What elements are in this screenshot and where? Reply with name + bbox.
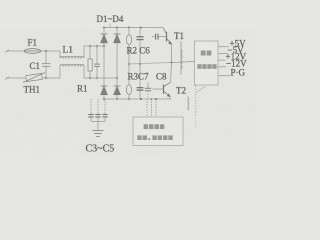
inductor L1 bottom winding xyxy=(60,64,84,66)
capacitor C4 xyxy=(97,99,99,114)
label D1~D4 tick xyxy=(109,24,111,28)
wire from L1 bottom to bridge xyxy=(83,66,85,78)
wire bridge column 2 xyxy=(116,28,118,100)
wire PWM drive lines xyxy=(146,99,148,117)
transistor Q1 xyxy=(163,28,172,45)
wire bottom after TH1 xyxy=(42,77,60,79)
box PWM protection xyxy=(133,117,183,146)
wire half-bridge midpoint xyxy=(171,44,173,63)
capacitor base network Q1 xyxy=(152,36,155,38)
capacitor C8 xyxy=(147,83,149,89)
diode D3 xyxy=(101,86,108,95)
wire output +5V xyxy=(218,46,229,48)
transformer T2 xyxy=(188,96,189,110)
junction marks xyxy=(45,26,173,100)
capacitor C1 xyxy=(45,51,47,63)
diode D4 xyxy=(114,86,121,95)
inductor L1 top winding xyxy=(60,56,84,58)
text PWM box line1 (Chinese glyph blocks) xyxy=(144,124,165,129)
wire output P.G xyxy=(218,75,230,77)
wire output -12V xyxy=(218,66,226,68)
resistor R1 xyxy=(89,46,91,59)
capacitor C7 xyxy=(139,64,141,87)
node midpoint bus xyxy=(129,63,171,65)
ground xyxy=(93,131,104,137)
wire AC input bottom xyxy=(6,77,25,79)
junction dots xyxy=(140,98,142,100)
thermistor TH1 xyxy=(26,73,43,81)
wire feedback from output box xyxy=(197,86,206,92)
transistor Q2 xyxy=(164,82,171,96)
text PWM box line2 (Chinese glyph blocks) xyxy=(137,135,172,140)
fuse F1 xyxy=(24,49,41,54)
wire top rail xyxy=(104,27,163,29)
wire AC input top xyxy=(6,50,24,52)
wire output -5V xyxy=(218,52,228,54)
capacitor C5 xyxy=(104,99,106,114)
wire output +12V xyxy=(218,59,226,61)
transformer T1 xyxy=(181,41,182,75)
capacitor C2 across line xyxy=(96,46,98,64)
diode D2 xyxy=(114,34,121,43)
wire cap join xyxy=(91,121,105,123)
resistor R2 xyxy=(128,28,130,36)
capacitor C6 xyxy=(139,28,141,37)
wire top after fuse xyxy=(41,50,60,52)
wire from L1 top to bridge xyxy=(83,46,85,58)
wire bottom rail xyxy=(104,98,171,100)
background paper xyxy=(0,0,256,159)
wire bridge column 1 xyxy=(103,28,105,100)
text rectifier-filter box (Chinese glyph blocks) xyxy=(197,51,216,69)
capacitor C3 xyxy=(90,99,92,114)
box rectifier-filter xyxy=(195,41,219,85)
resistor R3 xyxy=(128,64,130,85)
diode D1 xyxy=(101,34,108,43)
